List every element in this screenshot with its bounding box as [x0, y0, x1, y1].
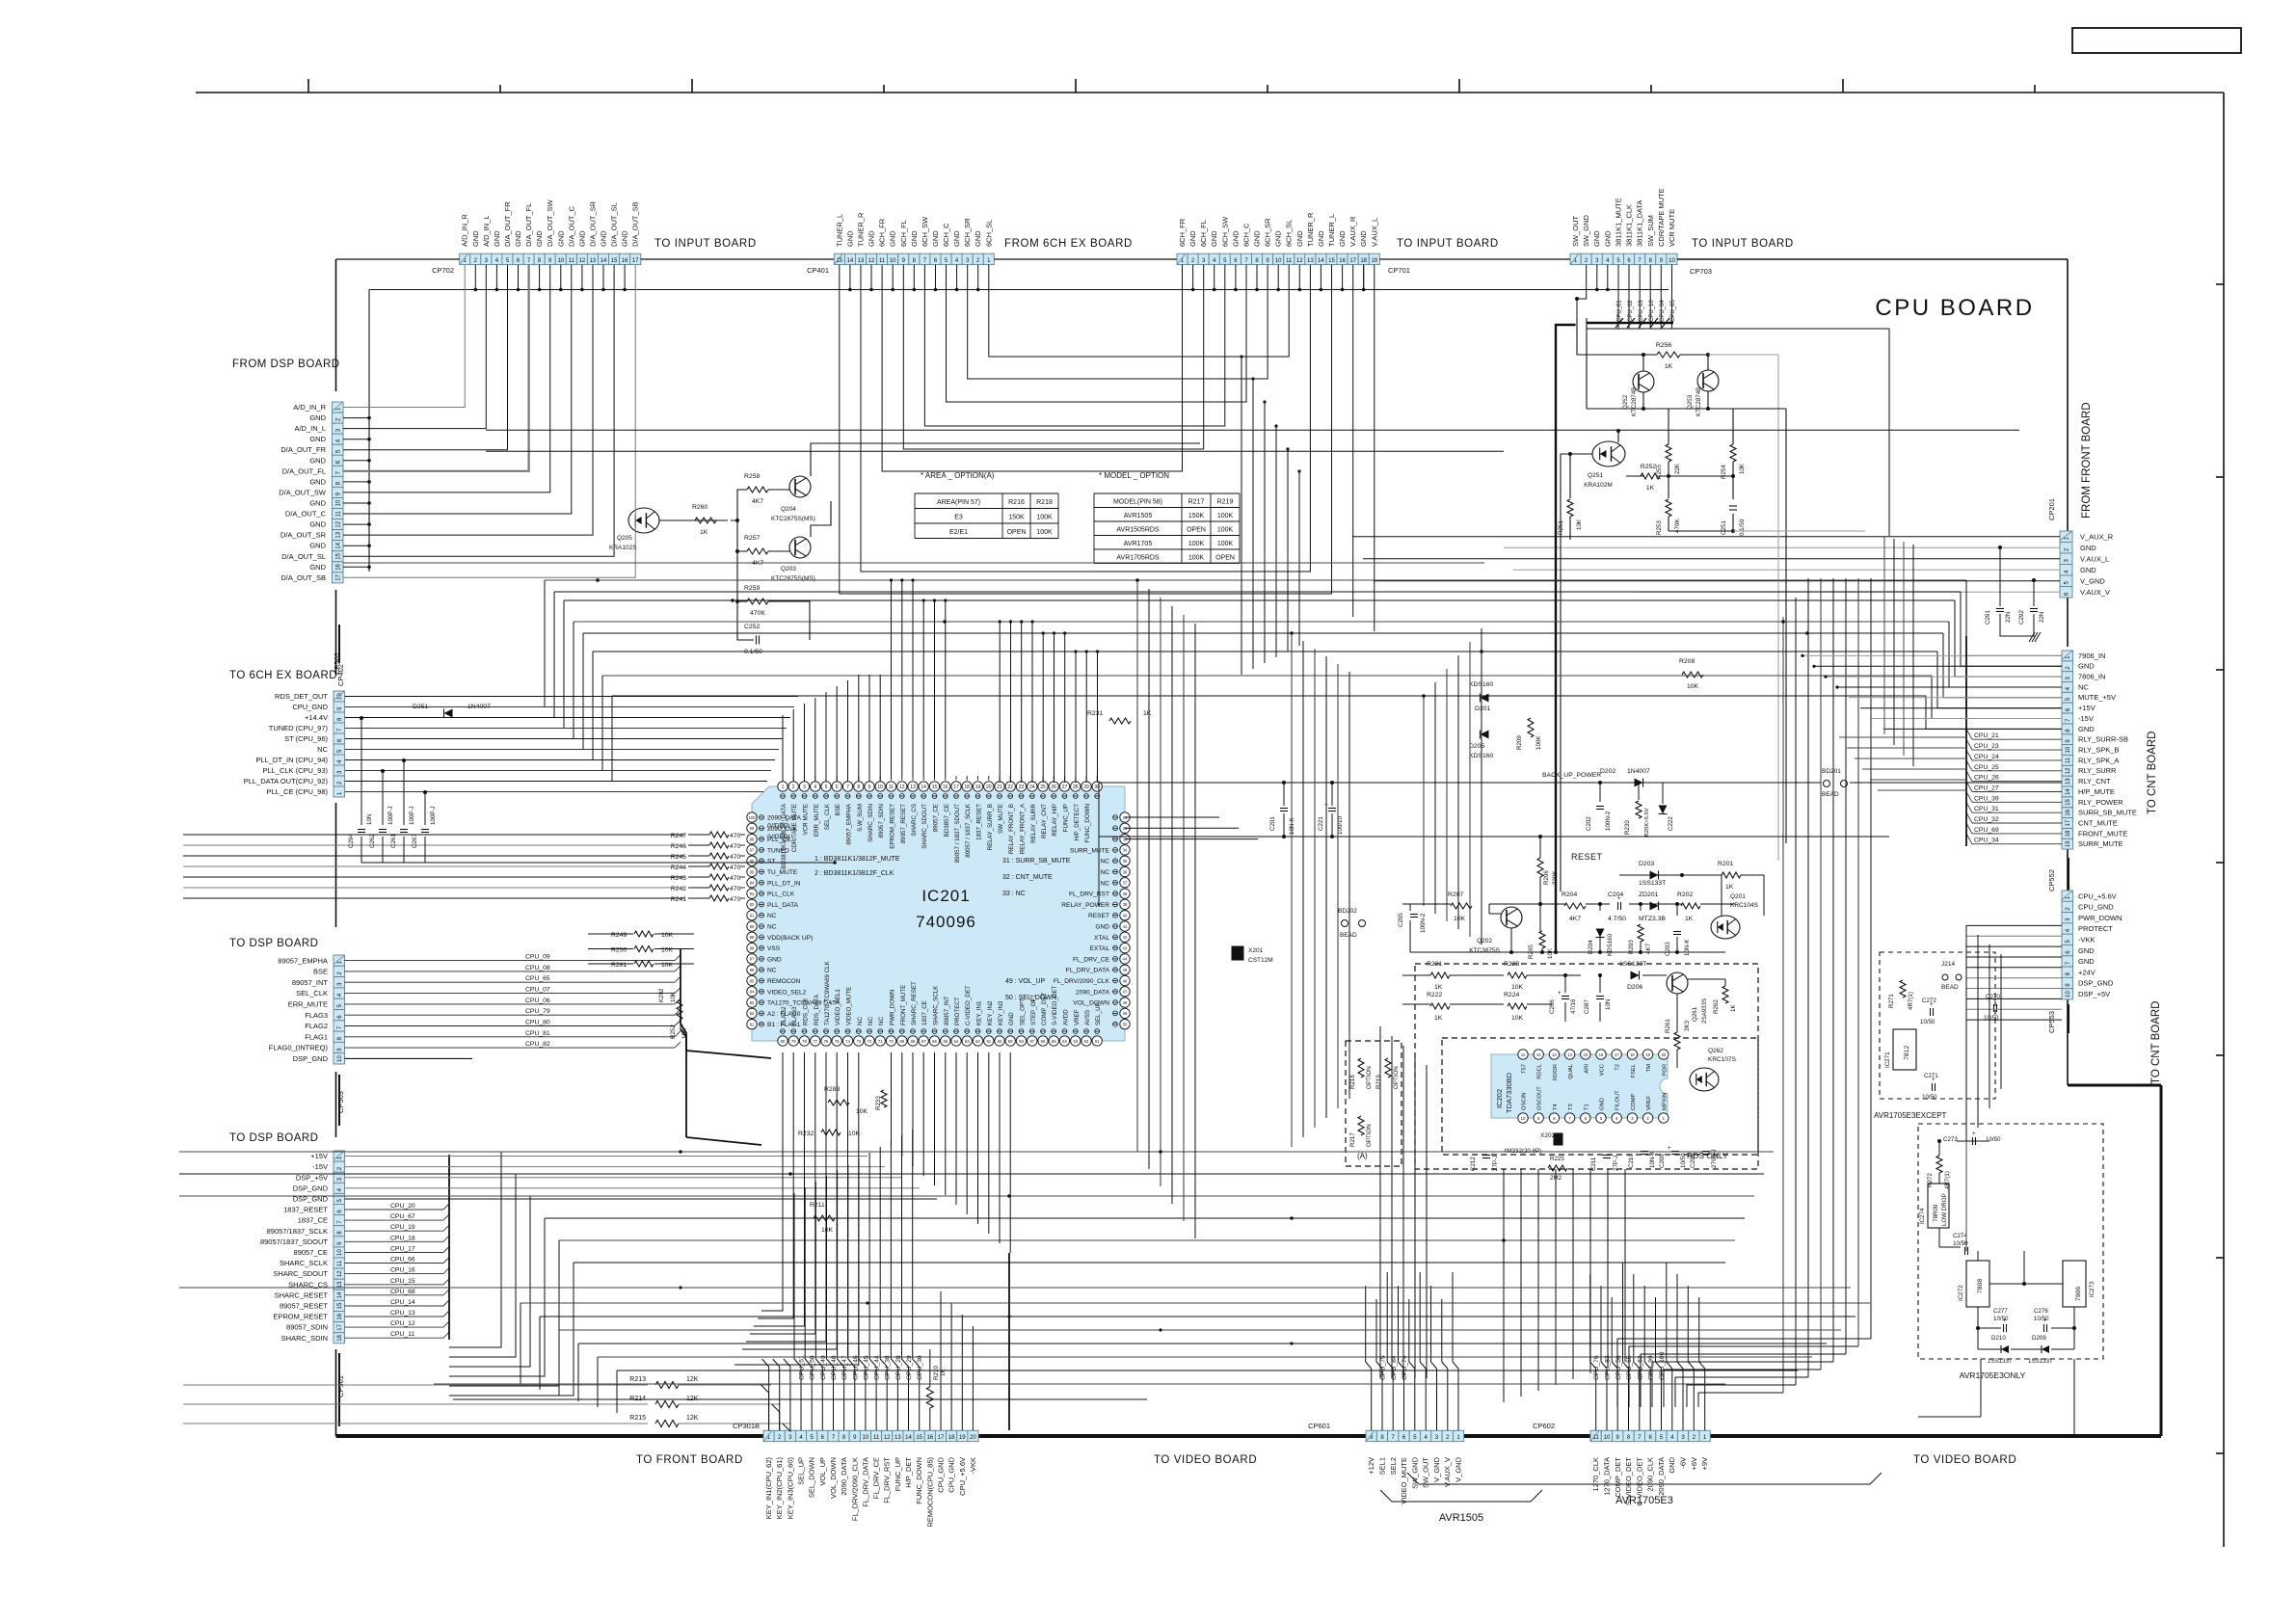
svg-text:D203: D203 [1639, 861, 1654, 867]
svg-text:AVSS: AVSS [1084, 1010, 1091, 1025]
board outline top right segment [1677, 258, 2068, 260]
svg-text:8: 8 [857, 785, 860, 790]
svg-text:98: 98 [750, 837, 755, 841]
svg-text:95: 95 [750, 869, 755, 874]
svg-text:11: 11 [2066, 758, 2071, 764]
svg-text:R244: R244 [671, 865, 686, 871]
reset vertical stubs [1409, 920, 1411, 952]
svg-text:1837_RESET: 1837_RESET [283, 1206, 328, 1214]
svg-text:EPROM_RESET: EPROM_RESET [890, 804, 896, 849]
svg-text:+14.4V: +14.4V [305, 713, 328, 722]
svg-text:6CH_SW: 6CH_SW [921, 216, 929, 247]
svg-text:OPTION: OPTION [1393, 1066, 1400, 1089]
wires CP702 odd pins elbow to CP502 odd pins [343, 265, 465, 408]
svg-text:3811K1_MUTE: 3811K1_MUTE [1615, 198, 1623, 247]
svg-text:19: 19 [1371, 258, 1377, 264]
svg-text:16: 16 [943, 785, 948, 790]
svg-text:0.1/50: 0.1/50 [1739, 519, 1746, 536]
transistor Q253 KTC2874B [1697, 370, 1719, 391]
svg-text:+15V: +15V [2078, 704, 2096, 712]
svg-text:EPROM_RESET: EPROM_RESET [273, 1313, 328, 1321]
svg-text:PLL_CLK (CPU_93): PLL_CLK (CPU_93) [262, 766, 328, 775]
svg-text:1SS133T: 1SS133T [1988, 1358, 2013, 1365]
svg-text:17: 17 [335, 573, 341, 580]
svg-text:10K: 10K [670, 991, 677, 1002]
wires Q205 cluster [659, 519, 728, 521]
svg-text:KRA102S: KRA102S [609, 545, 637, 551]
svg-text:150K: 150K [1008, 515, 1025, 521]
svg-text:CPU_12: CPU_12 [390, 1320, 415, 1327]
svg-text:CPU_05: CPU_05 [1670, 300, 1676, 322]
svg-text:BEAD: BEAD [1941, 984, 1959, 991]
svg-text:6CH_FL: 6CH_FL [1199, 220, 1208, 247]
svg-text:GND: GND [1008, 1012, 1015, 1025]
svg-text:A/D_IN_L: A/D_IN_L [294, 424, 326, 433]
left nested elbows CP502 to bus going right [501, 407, 540, 409]
svg-text:-15V: -15V [312, 1162, 328, 1171]
svg-text:T57: T57 [1522, 1064, 1528, 1074]
svg-text:35: 35 [1123, 859, 1128, 864]
svg-text:FL_DRV_RST: FL_DRV_RST [1069, 891, 1109, 898]
svg-text:KTC3875S: KTC3875S [1469, 947, 1500, 954]
svg-text:GND: GND [2078, 725, 2095, 733]
svg-text:3: 3 [803, 785, 806, 790]
svg-text:FLAG0_(INTREQ): FLAG0_(INTREQ) [269, 1044, 329, 1052]
svg-text:10: 10 [337, 1055, 343, 1062]
svg-text:470: 470 [730, 833, 741, 839]
svg-text:58: 58 [1019, 1039, 1024, 1044]
svg-text:16: 16 [926, 1435, 933, 1441]
svg-text:D/A_OUT_SB: D/A_OUT_SB [280, 573, 326, 582]
svg-text:R231: R231 [1087, 710, 1103, 717]
svg-text:2SA933S: 2SA933S [1701, 998, 1708, 1024]
svg-text:100K: 100K [1217, 513, 1234, 519]
svg-text:6CH_SW: 6CH_SW [1220, 216, 1229, 247]
svg-text:R225: R225 [1550, 1156, 1564, 1162]
svg-text:13: 13 [858, 258, 865, 264]
svg-text:10N-K: 10N-K [1649, 1151, 1656, 1168]
svg-text:89057_EMPHA: 89057_EMPHA [846, 803, 853, 845]
svg-text:85: 85 [750, 978, 755, 983]
svg-text:R224: R224 [1504, 992, 1519, 998]
CP301B pins 17-20 risers [940, 1291, 942, 1430]
svg-text:AVR1705E3EXCEPT: AVR1705E3EXCEPT [1874, 1111, 1947, 1120]
svg-text:BD202: BD202 [1338, 908, 1357, 915]
svg-text:2090_CLK: 2090_CLK [767, 826, 798, 833]
svg-text:470: 470 [730, 875, 741, 882]
svg-text:16: 16 [2066, 809, 2071, 815]
svg-text:28: 28 [1073, 785, 1079, 790]
svg-text:D205: D205 [1469, 743, 1484, 750]
svg-text:TO VIDEO BOARD: TO VIDEO BOARD [1913, 1454, 2016, 1466]
svg-text:15: 15 [1328, 258, 1335, 264]
svg-text:CPU_01: CPU_01 [1617, 300, 1623, 322]
svg-text:32 : CNT_MUTE: 32 : CNT_MUTE [1002, 874, 1053, 881]
svg-text:6CH_C: 6CH_C [942, 223, 950, 247]
svg-text:6CH_SL: 6CH_SL [1285, 220, 1294, 247]
svg-text:VOL_DOWN: VOL_DOWN [1073, 1000, 1109, 1007]
svg-text:VIDEO_SEL1: VIDEO_SEL1 [835, 989, 841, 1025]
svg-text:100K: 100K [1188, 555, 1205, 562]
svg-text:SHARC_SCLK: SHARC_SCLK [933, 985, 940, 1025]
svg-text:CPU_GND: CPU_GND [292, 703, 328, 711]
svg-text:C222: C222 [1668, 816, 1674, 831]
svg-text:TUNER_L: TUNER_L [1327, 214, 1336, 247]
svg-text:C202: C202 [1586, 816, 1592, 831]
rail lower y868 [1099, 836, 1889, 838]
svg-text:27P-J: 27P-J [1613, 1156, 1619, 1171]
wires CP502 even pins stubs to GND vertical [343, 417, 369, 419]
svg-text:KEY_IN1: KEY_IN1 [976, 1000, 983, 1025]
svg-text:CPU_08: CPU_08 [525, 965, 550, 971]
svg-text:IC272: IC272 [1958, 1285, 1964, 1301]
svg-text:11: 11 [889, 785, 894, 790]
svg-text:26: 26 [1051, 785, 1056, 790]
wires CP702 even pins to GND rail [474, 265, 476, 290]
svg-text:E2/E1: E2/E1 [949, 529, 968, 536]
svg-text:CPU_23: CPU_23 [1974, 743, 1999, 750]
svg-text:6: 6 [836, 785, 839, 790]
svg-text:KTC2875S(MS): KTC2875S(MS) [771, 516, 815, 522]
svg-text:CPU_48: CPU_48 [831, 1355, 838, 1380]
diode D205 KDS160 [1481, 731, 1489, 739]
svg-text:VIDEO_MUTE: VIDEO_MUTE [846, 987, 853, 1025]
svg-text:RELAY_SURR_B: RELAY_SURR_B [987, 804, 994, 850]
svg-text:6CH_SL: 6CH_SL [984, 220, 993, 247]
svg-text:CPU_GND: CPU_GND [948, 1456, 956, 1492]
svg-text:SEL1: SEL1 [1378, 1457, 1387, 1475]
svg-text:VOL_DOWN: VOL_DOWN [829, 1457, 838, 1499]
svg-text:D/A_OUT_C: D/A_OUT_C [285, 510, 327, 519]
svg-text:CPU_25: CPU_25 [1974, 764, 1999, 771]
svg-text:7906: 7906 [2075, 1287, 2082, 1301]
svg-text:+: + [2003, 1318, 2007, 1324]
wire reset rail main y938 [1402, 903, 1451, 905]
svg-text:D/A_OUT_SL: D/A_OUT_SL [610, 202, 619, 247]
CP553 feeder verticals [1965, 925, 1967, 1147]
svg-text:NC: NC [2078, 682, 2089, 691]
svg-text:XTAL: XTAL [1094, 935, 1109, 942]
svg-text:13: 13 [2066, 778, 2071, 785]
wires from CP402 pins rightward [345, 696, 798, 698]
svg-text:100N-2: 100N-2 [1420, 913, 1427, 933]
svg-text:R223: R223 [1504, 961, 1519, 968]
svg-text:100P-J: 100P-J [387, 806, 394, 825]
svg-text:91: 91 [750, 914, 755, 918]
svg-text:15: 15 [916, 1435, 922, 1441]
wire thick bus extension [1555, 891, 1557, 952]
IC201 top pins short leads [782, 776, 784, 781]
svg-text:16: 16 [337, 1313, 343, 1319]
svg-text:2090_CLK: 2090_CLK [1646, 1457, 1655, 1491]
svg-text:89057_SDIN: 89057_SDIN [286, 1323, 328, 1332]
svg-text:TUNED: TUNED [767, 847, 789, 854]
svg-text:R260: R260 [692, 504, 707, 511]
svg-text:Q203: Q203 [781, 566, 796, 572]
svg-text:VCC: VCC [1600, 1064, 1606, 1076]
resistor R262 1K vertical [1722, 986, 1728, 1003]
svg-text:SW_OUT: SW_OUT [1571, 215, 1580, 247]
svg-text:D/A_OUT_SW: D/A_OUT_SW [279, 488, 327, 496]
svg-text:CPU_34: CPU_34 [1974, 838, 1999, 844]
svg-text:CPU_13: CPU_13 [390, 1310, 415, 1317]
svg-text:12: 12 [1536, 1052, 1541, 1057]
svg-text:FROM DSP BOARD: FROM DSP BOARD [232, 359, 340, 370]
svg-text:38: 38 [1123, 891, 1128, 896]
svg-text:5: 5 [825, 785, 828, 790]
svg-text:2: 2 [792, 785, 795, 790]
svg-text:18: 18 [337, 1334, 343, 1341]
svg-text:R219: R219 [1375, 1075, 1382, 1089]
capacitor C202 100N-2 vertical [1596, 806, 1604, 808]
svg-text:RLY_SURR: RLY_SURR [2078, 766, 2117, 775]
svg-text:K202: K202 [658, 988, 665, 1002]
svg-text:NC: NC [1100, 880, 1109, 887]
svg-text:CP701: CP701 [1388, 266, 1410, 275]
svg-text:R262: R262 [1713, 999, 1720, 1014]
wire R256 to Q253 base and right [1680, 354, 1708, 356]
regulator IC271 7812 [1893, 1029, 1916, 1070]
svg-text:CP601: CP601 [1308, 1422, 1330, 1430]
svg-text:15: 15 [335, 552, 341, 559]
connector CP701 pin row [1177, 253, 1188, 264]
svg-text:CST12M: CST12M [1248, 957, 1273, 964]
ground symbol [2029, 632, 2035, 642]
svg-text:CPU_50: CPU_50 [810, 1355, 816, 1380]
svg-text:PLL_DATA OUT(CPU_92): PLL_DATA OUT(CPU_92) [244, 777, 329, 785]
svg-text:GND: GND [1274, 230, 1283, 247]
svg-text:+: + [1932, 1078, 1936, 1083]
svg-text:GND: GND [931, 230, 940, 247]
svg-text:AVR1505: AVR1505 [1439, 1512, 1483, 1524]
svg-text:MUTE_+5V: MUTE_+5V [2078, 693, 2116, 702]
svg-text:10K: 10K [661, 932, 674, 939]
svg-text:61: 61 [986, 1039, 991, 1044]
svg-text:CPU_69: CPU_69 [1974, 827, 1999, 834]
svg-text:100N-2: 100N-2 [1605, 811, 1612, 831]
svg-text:CP552: CP552 [2047, 869, 2056, 891]
svg-text:S-VIDEO_DET: S-VIDEO_DET [1052, 986, 1058, 1025]
svg-text:NC: NC [767, 913, 777, 919]
svg-text:TM: TM [1646, 1064, 1652, 1073]
svg-text:C205: C205 [1398, 913, 1404, 927]
svg-text:1837_CE: 1837_CE [298, 1216, 328, 1225]
wires C291 C292 up [1999, 547, 2001, 606]
svg-text:17: 17 [938, 1435, 945, 1441]
svg-text:1K: 1K [1143, 710, 1152, 717]
svg-text:R253: R253 [1656, 520, 1663, 535]
svg-text:KEY_IN2(CPU_61): KEY_IN2(CPU_61) [775, 1457, 784, 1520]
svg-text:SEL_OPT: SEL_OPT [1020, 998, 1027, 1025]
bead BD202 [1342, 920, 1348, 927]
svg-text:R261: R261 [1665, 1019, 1671, 1033]
resistor R230 B20K-5.5V vertical [1636, 801, 1642, 818]
svg-text:GND: GND [1095, 924, 1109, 931]
svg-text:D/A_OUT_SW: D/A_OUT_SW [546, 199, 554, 247]
wire R261 stem [1676, 994, 1678, 1032]
svg-text:R216: R216 [1008, 499, 1025, 506]
CP552 collector extension [1965, 636, 1967, 675]
svg-text:CPU_06: CPU_06 [525, 998, 550, 1004]
svg-text:22N: 22N [2005, 612, 2012, 623]
svg-text:RELAY_CNT: RELAY_CNT [1041, 804, 1048, 838]
svg-text:10K: 10K [661, 947, 674, 954]
resistor R203 4K7 vertical [1638, 924, 1643, 942]
svg-text:470: 470 [730, 896, 741, 903]
svg-text:FL_DRV_CE: FL_DRV_CE [1073, 956, 1110, 963]
IC201 left pin circles [747, 812, 757, 822]
svg-text:FLAG2: FLAG2 [305, 1022, 328, 1030]
svg-text:ERR_MUTE: ERR_MUTE [814, 804, 820, 837]
svg-text:NC: NC [857, 1017, 864, 1025]
svg-text:CP201: CP201 [2047, 498, 2056, 520]
svg-text:10/50: 10/50 [2034, 1316, 2049, 1322]
svg-text:REMOCON(CPU_85): REMOCON(CPU_85) [925, 1457, 934, 1528]
svg-text:E3: E3 [954, 515, 963, 521]
svg-text:55: 55 [1052, 1039, 1056, 1044]
svg-text:V_GND: V_GND [2080, 577, 2105, 586]
wire CP701 to CP703 [1379, 258, 1570, 260]
svg-text:64: 64 [954, 1039, 959, 1044]
svg-text:54: 54 [1062, 1039, 1067, 1044]
svg-text:13: 13 [337, 1281, 343, 1288]
feeder verticals from connector elbow rows to bus [1241, 357, 1242, 675]
wire Q251 top to bus [1617, 431, 1619, 442]
svg-text:CPU_49: CPU_49 [820, 1355, 827, 1380]
svg-text:FROM 6CH EX BOARD: FROM 6CH EX BOARD [1004, 238, 1133, 250]
bottom long horizontals above CP301B [521, 1302, 1870, 1304]
svg-text:R252: R252 [1641, 464, 1656, 470]
svg-text:SHARC_RESET: SHARC_RESET [275, 1290, 329, 1299]
bus line from CP703 merge [1587, 328, 1889, 330]
svg-text:V.AUX_V: V.AUX_V [2080, 588, 2110, 597]
svg-text:FUNC_DOWN: FUNC_DOWN [1084, 804, 1091, 842]
svg-text:7906_IN: 7906_IN [2078, 652, 2105, 660]
svg-text:C206: C206 [1549, 999, 1556, 1014]
svg-text:ARI: ARI [1584, 1064, 1589, 1074]
svg-text:47/16: 47/16 [1570, 998, 1577, 1014]
wire CP401 to CP701 [994, 258, 1177, 260]
svg-text:18: 18 [1630, 1052, 1635, 1057]
svg-text:10K: 10K [1576, 519, 1583, 530]
svg-text:GND: GND [309, 477, 326, 486]
svg-text:Q262: Q262 [1708, 1048, 1723, 1054]
svg-text:89: 89 [750, 935, 755, 940]
svg-text:150K: 150K [1188, 513, 1205, 519]
MODEL OPTION table [1094, 492, 1240, 494]
svg-text:C262: C262 [369, 834, 376, 848]
svg-text:100K: 100K [1188, 541, 1205, 547]
svg-text:470: 470 [730, 854, 741, 861]
svg-text:1K: 1K [1646, 485, 1655, 492]
svg-text:SHARC_CS: SHARC_CS [911, 804, 918, 837]
svg-text:7: 7 [846, 785, 849, 790]
svg-text:V_GND: V_GND [1432, 1456, 1441, 1481]
svg-text:C221: C221 [1318, 816, 1324, 831]
svg-text:R205: R205 [1528, 945, 1535, 959]
svg-text:RELAY_FRONT_B: RELAY_FRONT_B [1008, 804, 1015, 854]
wire GND rail vertical to CP502 side [368, 290, 370, 572]
svg-text:R250: R250 [611, 947, 627, 954]
svg-text:S.W_SUM: S.W_SUM [857, 804, 864, 832]
svg-text:GND: GND [2080, 566, 2096, 574]
svg-text:R207: R207 [1448, 891, 1463, 898]
svg-text:RDOR: RDOR [1553, 1064, 1559, 1080]
svg-text:13: 13 [910, 785, 916, 790]
svg-text:ST: ST [767, 859, 775, 865]
wires CP701 even pins to GND rail [1192, 265, 1194, 290]
svg-text:77: 77 [813, 1039, 817, 1044]
svg-text:4R7(1): 4R7(1) [1908, 992, 1914, 1010]
svg-text:1SS133T: 1SS133T [1639, 880, 1666, 887]
svg-text:CPU_100: CPU_100 [1659, 1351, 1666, 1380]
svg-text:GND: GND [1231, 230, 1240, 247]
svg-text:11: 11 [1286, 258, 1293, 264]
AREA OPTION table [915, 492, 1058, 494]
svg-text:GND: GND [1188, 230, 1197, 247]
svg-text:10K: 10K [1547, 947, 1554, 959]
svg-text:1SS133T: 1SS133T [1619, 961, 1646, 968]
svg-text:SEL_UP: SEL_UP [797, 1457, 806, 1485]
svg-text:DSP_+5V: DSP_+5V [296, 1173, 328, 1182]
wire Q202 base [1461, 903, 1489, 905]
wire CP702 to CP401 [641, 258, 834, 260]
svg-text:SW_GND: SW_GND [1410, 1456, 1419, 1489]
svg-text:17: 17 [1349, 258, 1356, 264]
connector CP301B pin row [763, 1430, 774, 1441]
svg-text:TO INPUT BOARD: TO INPUT BOARD [1692, 238, 1794, 250]
svg-text:6CH_C: 6CH_C [1242, 223, 1251, 247]
svg-text:470: 470 [730, 843, 741, 850]
capacitor C221 100/10 vertical [1328, 808, 1336, 810]
svg-text:GND: GND [621, 230, 629, 247]
connector CP553 pin column (TO CNT BOARD lower) [2062, 891, 2073, 901]
svg-text:CPU_67: CPU_67 [390, 1213, 415, 1220]
svg-text:CP602: CP602 [1533, 1422, 1555, 1430]
wire R206 top [1539, 838, 1541, 858]
vertical from rail right end down [1785, 409, 1787, 843]
svg-text:POR: POR [1662, 1064, 1668, 1077]
svg-text:RLY_SPK_B: RLY_SPK_B [2078, 746, 2119, 755]
dashed box AVR1705E3EXCEPT [1880, 952, 1995, 1099]
resistor R213 [183, 1384, 648, 1386]
svg-text:KRA102M: KRA102M [1584, 482, 1613, 489]
svg-text:TO VIDEO BOARD: TO VIDEO BOARD [1154, 1454, 1257, 1466]
svg-text:-6V: -6V [1679, 1457, 1688, 1469]
svg-text:73: 73 [856, 1039, 861, 1044]
regulator IC272 7808 [1966, 1261, 1989, 1307]
svg-text:CNT_MUTE: CNT_MUTE [2078, 819, 2118, 828]
svg-text:16: 16 [335, 563, 341, 570]
svg-text:RELAY_H/P: RELAY_H/P [1052, 804, 1058, 837]
svg-text:GND: GND [1603, 230, 1612, 247]
svg-text:89057 / 1837_SCLK: 89057 / 1837_SCLK [965, 803, 972, 858]
svg-text:OSCIN: OSCIN [1522, 1093, 1528, 1110]
svg-text:SEL_CLK: SEL_CLK [296, 989, 328, 998]
svg-text:Q261: Q261 [1692, 1006, 1698, 1022]
svg-text:CPU_45: CPU_45 [863, 1355, 869, 1380]
svg-text:16: 16 [622, 258, 628, 264]
svg-text:R216: R216 [1349, 1075, 1356, 1089]
svg-text:C294: C294 [348, 834, 355, 848]
svg-text:14: 14 [337, 1291, 343, 1298]
svg-text:76: 76 [824, 1039, 829, 1044]
svg-text:R241: R241 [671, 896, 686, 903]
svg-text:FLAG2: FLAG2 [781, 1006, 788, 1025]
IC202 top pin circles [1518, 1050, 1528, 1059]
connector CP702 pin row [460, 253, 470, 264]
svg-text:100K: 100K [1217, 527, 1234, 534]
